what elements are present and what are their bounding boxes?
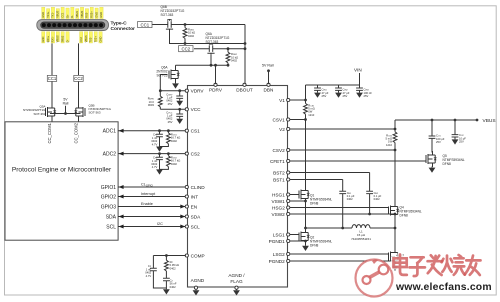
svg-text:CS2: CS2 (191, 152, 201, 157)
svg-text:TX2+: TX2+ (94, 36, 98, 43)
svg-text:GND: GND (41, 37, 45, 43)
svg-text:COMP: COMP (191, 253, 205, 258)
svg-text:Type-C: Type-C (111, 21, 128, 27)
svg-text:DFN8: DFN8 (400, 214, 409, 218)
svg-text:25V: 25V (322, 94, 327, 98)
svg-text:4.7V: 4.7V (146, 274, 152, 278)
svg-text:BST2: BST2 (273, 170, 285, 175)
svg-text:LSG2: LSG2 (273, 252, 285, 257)
svg-text:25V: 25V (168, 102, 173, 106)
svg-text:SOT-23: SOT-23 (157, 74, 168, 78)
svg-text:LSG1: LSG1 (273, 232, 285, 237)
svg-text:1210: 1210 (308, 113, 314, 117)
svg-text:DFN8: DFN8 (443, 162, 452, 166)
svg-text:CFET1: CFET1 (270, 159, 285, 164)
svg-text:DBN: DBN (264, 88, 274, 93)
svg-text:HSG2: HSG2 (272, 205, 285, 210)
svg-text:25V: 25V (343, 94, 348, 98)
svg-text:GND: GND (41, 12, 45, 18)
svg-text:CC2: CC2 (181, 46, 190, 51)
svg-text:4.7V: 4.7V (152, 142, 158, 146)
svg-text:ADC1: ADC1 (103, 129, 117, 135)
svg-text:V1: V1 (279, 98, 285, 103)
svg-text:RX1+: RX1+ (46, 35, 50, 42)
svg-text:GPIO1: GPIO1 (101, 185, 117, 191)
svg-text:VBUS: VBUS (84, 35, 88, 42)
svg-text:GPIO3: GPIO3 (101, 205, 117, 211)
svg-text:VBUS: VBUS (56, 35, 60, 42)
svg-text:INT: INT (191, 194, 199, 199)
svg-text:GND: GND (98, 37, 102, 43)
svg-text:PDRV: PDRV (209, 88, 223, 93)
svg-text:DFN8: DFN8 (310, 202, 319, 206)
svg-text:5V Rail: 5V Rail (262, 64, 274, 68)
svg-text:D-: D- (70, 15, 74, 18)
svg-text:CC1: CC1 (60, 12, 64, 18)
svg-text:0402: 0402 (347, 197, 353, 201)
svg-text:TX1-: TX1- (51, 12, 55, 18)
svg-text:TX2-: TX2- (89, 37, 93, 43)
svg-text:0402: 0402 (170, 285, 176, 289)
svg-text:VDRV: VDRV (191, 89, 205, 94)
svg-text:CC2: CC2 (74, 76, 83, 81)
svg-text:CSV1: CSV1 (273, 117, 286, 122)
svg-text:SOT-363: SOT-363 (161, 13, 174, 17)
svg-text:25V: 25V (364, 94, 369, 98)
svg-text:25V: 25V (459, 140, 464, 144)
svg-text:CLIND: CLIND (191, 185, 206, 190)
svg-text:0402: 0402 (374, 197, 380, 201)
svg-text:CC2: CC2 (79, 37, 83, 43)
svg-text:www.elecfans.com: www.elecfans.com (395, 282, 492, 293)
svg-text:BST1: BST1 (273, 177, 285, 182)
svg-text:PGND1: PGND1 (269, 239, 286, 244)
svg-text:CSV2: CSV2 (273, 148, 286, 153)
svg-text:4.7V: 4.7V (152, 165, 158, 169)
svg-text:CC_COM2: CC_COM2 (74, 122, 79, 143)
svg-text:I2C: I2C (157, 222, 163, 226)
svg-text:RX2+: RX2+ (90, 11, 94, 18)
svg-text:25V: 25V (168, 120, 173, 124)
svg-text:SBU2: SBU2 (60, 35, 64, 42)
svg-text:Connector: Connector (111, 26, 136, 32)
svg-text:VCC: VCC (191, 107, 202, 112)
svg-text:0402: 0402 (171, 139, 177, 143)
svg-text:TX1+: TX1+ (46, 11, 50, 18)
svg-text:CS1: CS1 (191, 129, 201, 134)
svg-text:VBUS: VBUS (56, 10, 60, 17)
svg-text:SCL: SCL (106, 225, 116, 231)
svg-text:VBUS: VBUS (80, 10, 84, 17)
svg-text:ADC2: ADC2 (103, 152, 117, 158)
svg-text:1210: 1210 (386, 143, 392, 147)
svg-text:0402: 0402 (170, 266, 176, 270)
svg-text:D-: D- (65, 40, 69, 43)
svg-text:AGND /: AGND / (228, 273, 245, 278)
svg-text:25V: 25V (436, 140, 441, 144)
svg-text:RX1-: RX1- (51, 36, 55, 42)
svg-text:GND: GND (94, 12, 98, 18)
svg-text:VBUS: VBUS (483, 118, 496, 124)
svg-text:Interrupt: Interrupt (141, 192, 156, 196)
svg-text:GPIO2: GPIO2 (101, 195, 117, 201)
svg-text:SDA: SDA (191, 214, 202, 219)
svg-text:0402: 0402 (171, 162, 177, 166)
svg-text:SBU1: SBU1 (75, 10, 79, 17)
svg-text:VSW1: VSW1 (272, 199, 286, 204)
svg-text:EN: EN (191, 204, 198, 209)
svg-text:DBOUT: DBOUT (236, 88, 253, 93)
svg-text:VIN: VIN (354, 68, 362, 73)
svg-text:V2: V2 (279, 127, 285, 132)
svg-text:FLAG: FLAG (230, 279, 243, 284)
svg-text:SCL: SCL (191, 224, 201, 229)
svg-text:Rail: Rail (63, 101, 69, 105)
svg-text:GND: GND (99, 12, 103, 18)
svg-text:CC_COM1: CC_COM1 (47, 122, 52, 143)
svg-text:PGND2: PGND2 (269, 259, 286, 264)
svg-text:0603: 0603 (148, 103, 154, 107)
svg-text:HSG1: HSG1 (272, 192, 285, 197)
svg-text:SDA: SDA (106, 215, 117, 221)
svg-text:SOT-363: SOT-363 (206, 40, 219, 44)
svg-text:D+: D+ (65, 14, 69, 18)
svg-text:SOT-363: SOT-363 (33, 112, 45, 116)
svg-text:DFN8: DFN8 (310, 244, 319, 248)
svg-text:RX2-: RX2- (85, 12, 89, 18)
svg-text:CC1: CC1 (140, 22, 149, 27)
svg-text:744035551151: 744035551151 (351, 237, 371, 241)
svg-text:0402: 0402 (231, 59, 237, 63)
svg-text:AGND: AGND (191, 278, 205, 283)
svg-text:CC1: CC1 (48, 76, 57, 81)
svg-text:Enable: Enable (141, 202, 153, 206)
svg-text:VSW2: VSW2 (272, 212, 286, 217)
svg-text:0402: 0402 (188, 34, 194, 38)
svg-text:Protocol Engine or Microcontro: Protocol Engine or Microcontroller (12, 166, 112, 173)
svg-text:SOT-363: SOT-363 (89, 111, 101, 115)
